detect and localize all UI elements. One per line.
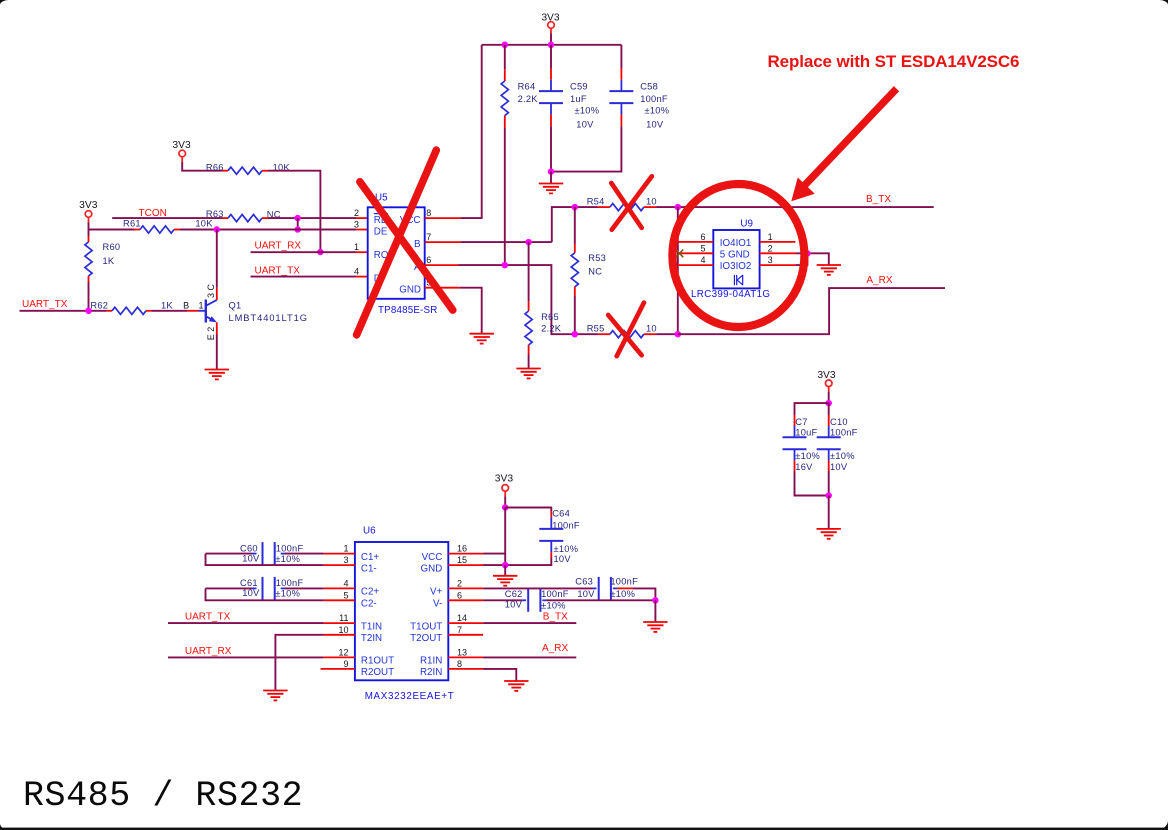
svg-text:R1OUT: R1OUT <box>361 656 394 667</box>
wire rail left drop to U5 pin8 <box>461 45 482 218</box>
resistor R55 10 <box>598 333 610 335</box>
svg-text:1uF: 1uF <box>570 94 587 104</box>
svg-text:V-: V- <box>433 599 442 610</box>
wire C10 to ground <box>828 496 830 529</box>
svg-text:4: 4 <box>354 267 359 277</box>
node junction pin15-C64-ground <box>502 562 509 569</box>
svg-text:B_TX: B_TX <box>543 611 568 622</box>
node junction A-R64 <box>502 262 509 269</box>
svg-text:UART_RX: UART_RX <box>255 240 302 251</box>
svg-text:V+: V+ <box>430 587 443 598</box>
node junction U9 pin2-pin3 <box>804 250 811 256</box>
wire UART_RX to U5 pin1 <box>251 251 357 253</box>
svg-text:1K: 1K <box>103 256 115 266</box>
svg-text:±10%: ±10% <box>275 589 300 599</box>
svg-text:IO3IO2: IO3IO2 <box>720 261 752 272</box>
svg-text:E 2: E 2 <box>206 327 216 341</box>
svg-text:7: 7 <box>426 232 431 242</box>
svg-text:±10%: ±10% <box>610 589 635 599</box>
svg-text:±10%: ±10% <box>645 105 670 115</box>
svg-text:16: 16 <box>457 544 467 554</box>
svg-text:16V: 16V <box>795 462 813 472</box>
svg-text:R65: R65 <box>541 312 559 322</box>
svg-text:T1IN: T1IN <box>361 621 382 632</box>
svg-text:B: B <box>414 239 421 250</box>
svg-text:5: 5 <box>343 590 348 600</box>
wire UART_TX to R62 <box>20 310 107 312</box>
svg-text:LMBT4401LT1G: LMBT4401LT1G <box>229 313 308 323</box>
node junction C7-C10 bottom <box>825 492 832 499</box>
svg-text:T2IN: T2IN <box>361 633 382 644</box>
svg-text:5: 5 <box>700 244 705 254</box>
svg-text:±10%: ±10% <box>275 554 300 564</box>
svg-text:C10: C10 <box>830 417 848 427</box>
wire Q1 collector up <box>216 230 218 288</box>
svg-text:1: 1 <box>343 544 348 554</box>
svg-text:8: 8 <box>426 208 431 218</box>
svg-text:Replace with ST ESDA14V2SC6: Replace with ST ESDA14V2SC6 <box>768 52 1020 71</box>
wire UART_TX to U5 pin4 <box>251 276 357 278</box>
capacitor C7 10uF <box>795 403 829 415</box>
wire U6 pin8 to ground <box>448 668 483 670</box>
diode glyph (U9) <box>733 275 735 285</box>
svg-text:4: 4 <box>343 578 348 588</box>
node junction R66-UART_RX <box>317 249 324 256</box>
wire U6 pin2 V+ to C63 <box>448 587 483 589</box>
svg-text:10: 10 <box>646 196 657 206</box>
resistor R60 1K <box>88 230 90 237</box>
svg-text:10V: 10V <box>576 119 594 129</box>
node junction RE-DE tie top <box>294 215 301 222</box>
wire 3V3 stem (C7/C10) <box>828 387 830 393</box>
svg-text:UART_RX: UART_RX <box>185 646 232 657</box>
node junction C59-C58 bottom <box>548 168 555 175</box>
op-amp U5 box <box>368 207 425 298</box>
wire U5 pin8 lead <box>425 217 461 219</box>
svg-text:2.2K: 2.2K <box>518 94 539 104</box>
node junction 3V3-C7 <box>825 400 832 407</box>
svg-text:Q1: Q1 <box>229 301 242 311</box>
svg-text:8: 8 <box>457 659 462 669</box>
resistor R54 10 <box>610 204 644 211</box>
svg-text:2: 2 <box>457 578 462 588</box>
node junction rail-R64 <box>502 42 509 49</box>
svg-text:2: 2 <box>768 244 773 254</box>
svg-text:11: 11 <box>339 613 348 623</box>
svg-text:±10%: ±10% <box>554 544 579 554</box>
red X over U5 <box>357 150 437 335</box>
red arrow to U9 <box>800 89 897 191</box>
wire C61 return (pin5) <box>206 588 324 600</box>
capacitor C59 1uF <box>550 45 552 68</box>
node junction V- C63 ground <box>652 597 659 604</box>
wire R61 left <box>89 229 135 231</box>
node junction R54-R53 <box>572 204 579 211</box>
svg-text:1K: 1K <box>161 300 173 310</box>
wire U5 pin7 (B) to R54 <box>425 241 461 243</box>
svg-text:5 GND: 5 GND <box>720 249 750 260</box>
wire R63 to U5 pin2 <box>268 217 356 219</box>
node junction B-R65 <box>525 239 532 246</box>
wire R62 to Q1 base <box>152 310 187 312</box>
svg-text:U9: U9 <box>740 219 753 230</box>
svg-text:10V: 10V <box>242 554 260 564</box>
svg-text:10V: 10V <box>646 119 664 129</box>
svg-text:C1+: C1+ <box>361 552 380 563</box>
ground (Q1 emitter) <box>205 370 229 380</box>
ground (U6 pin8) <box>504 681 528 691</box>
svg-text:R2IN: R2IN <box>420 667 442 678</box>
ground (U6 pin15) <box>493 576 517 586</box>
wire A_RX net <box>678 288 945 334</box>
wire C59 bottom to ground <box>550 172 552 184</box>
ground (R65) <box>516 369 540 379</box>
ground (U6 pin10) <box>263 691 287 701</box>
wire U9 pin1 lead <box>760 241 796 243</box>
node junction RE-DE tie bottom <box>294 226 301 233</box>
red X over R54 <box>611 183 641 228</box>
svg-text:C58: C58 <box>640 81 658 91</box>
window corner top-right <box>1159 0 1168 5</box>
wire 3V3 to R66 <box>181 157 183 162</box>
svg-text:10: 10 <box>646 323 657 333</box>
svg-text:10V: 10V <box>830 462 848 472</box>
wire C60 return (pin3) <box>206 554 324 566</box>
svg-text:3: 3 <box>768 255 773 265</box>
svg-text:B: B <box>183 300 189 310</box>
svg-text:A_RX: A_RX <box>542 643 568 654</box>
wire U9 pin6 lead <box>678 241 714 243</box>
svg-text:R66: R66 <box>206 162 224 172</box>
resistor R62 1K <box>106 310 112 312</box>
svg-text:7: 7 <box>457 625 462 635</box>
svg-text:10V: 10V <box>505 599 523 609</box>
wire U9 left bus <box>677 207 679 334</box>
ground (U5 pin5) <box>470 334 494 344</box>
svg-text:VCC: VCC <box>422 552 443 563</box>
svg-text:±10%: ±10% <box>575 105 600 115</box>
svg-text:3V3: 3V3 <box>172 140 191 151</box>
wire pin15 to ground <box>504 565 506 576</box>
svg-text:1: 1 <box>354 242 359 252</box>
svg-text:3: 3 <box>354 220 359 230</box>
resistor R63 10K (NC) <box>222 217 228 219</box>
window corner bottom-left <box>0 824 9 830</box>
node junction 3V3-C64 <box>502 504 509 511</box>
wire U6 pin15 GND <box>448 564 483 566</box>
svg-text:UART_TX: UART_TX <box>255 265 301 276</box>
ground (U9) <box>817 265 841 275</box>
wire R61 to U5 pin3 <box>180 229 356 231</box>
diode U9 box <box>713 230 759 288</box>
svg-text:10V: 10V <box>242 588 260 598</box>
svg-text:3: 3 <box>343 555 348 565</box>
wire V- junction to ground <box>654 600 656 622</box>
svg-text:2: 2 <box>354 208 359 218</box>
wire U6 pin14 T1OUT (B_TX) <box>448 622 483 624</box>
wire 3V3 stem to rail <box>550 28 552 33</box>
svg-text:12: 12 <box>338 647 348 657</box>
svg-text:LRC399-04AT1G: LRC399-04AT1G <box>691 289 770 300</box>
svg-text:B_TX: B_TX <box>866 194 891 205</box>
wire U9 pin2 to ground <box>760 252 796 254</box>
svg-text:±10%: ±10% <box>541 600 566 610</box>
capacitor C10 100nF <box>828 403 830 415</box>
wire U5 pin6 (A) to R55 <box>425 264 459 266</box>
wire UART_RX to U6 pin12 <box>168 656 324 658</box>
node junction rail-C59 <box>548 42 555 49</box>
node junction B_TX-U9 <box>675 204 682 211</box>
window corner top-left <box>0 0 9 5</box>
svg-text:R61: R61 <box>123 219 141 229</box>
svg-text:R63: R63 <box>206 209 224 219</box>
wire TCON to R63 <box>112 217 222 219</box>
svg-text:1: 1 <box>768 232 773 242</box>
wire U6 pin10 to ground <box>324 634 355 636</box>
ground (top rail) <box>539 184 563 194</box>
svg-text:C1-: C1- <box>361 564 377 575</box>
wire U5 pin5 to ground <box>425 287 460 289</box>
svg-text:R62: R62 <box>90 301 108 311</box>
svg-text:100nF: 100nF <box>830 427 858 437</box>
svg-text:C64: C64 <box>552 508 570 518</box>
svg-text:10V: 10V <box>554 554 572 564</box>
node junction R60-UART_TX <box>85 308 92 315</box>
wire RE-DE tie <box>297 218 299 229</box>
red circle around U9 <box>672 184 804 327</box>
svg-text:NC: NC <box>588 267 602 277</box>
svg-text:C60: C60 <box>240 543 258 553</box>
resistor R53 NC <box>574 207 576 243</box>
resistor R61 10K <box>134 229 140 231</box>
ground (C7/C10) <box>817 529 841 539</box>
svg-text:R54: R54 <box>587 196 605 206</box>
svg-text:3V3: 3V3 <box>817 370 836 381</box>
capacitor C60 100nF <box>206 553 253 555</box>
svg-text:GND: GND <box>421 564 443 575</box>
svg-text:RS485 / RS232: RS485 / RS232 <box>23 776 303 816</box>
svg-text:1: 1 <box>198 300 203 310</box>
ground (V-) <box>643 622 667 632</box>
svg-text:MAX3232EEAE+T: MAX3232EEAE+T <box>365 691 454 702</box>
svg-text:100nF: 100nF <box>610 576 638 586</box>
svg-text:R1IN: R1IN <box>420 656 442 667</box>
svg-text:C2-: C2- <box>361 599 377 610</box>
capacitor C61 100nF <box>206 587 253 589</box>
resistor R66 10K <box>222 170 228 172</box>
svg-text:100nF: 100nF <box>276 543 304 553</box>
svg-text:6: 6 <box>700 232 705 242</box>
svg-text:±10%: ±10% <box>795 451 820 461</box>
svg-text:R60: R60 <box>103 242 121 252</box>
svg-text:3V3: 3V3 <box>79 200 98 211</box>
svg-text:T2OUT: T2OUT <box>410 633 442 644</box>
wire Q1 emitter down <box>216 335 218 370</box>
svg-text:3 C: 3 C <box>206 283 216 298</box>
svg-text:C7: C7 <box>795 417 807 427</box>
svg-text:C2+: C2+ <box>361 587 380 598</box>
svg-text:C63: C63 <box>575 576 593 586</box>
wire U9 pin3 to junction <box>760 264 796 266</box>
svg-text:10V: 10V <box>577 589 595 599</box>
svg-text:6: 6 <box>457 590 462 600</box>
svg-text:2.2K: 2.2K <box>541 324 562 334</box>
red X over R55 <box>608 315 642 355</box>
capacitor C63 100nF <box>593 587 597 589</box>
wire 3V3 to R61 corner <box>88 217 90 222</box>
svg-text:GND: GND <box>399 284 421 295</box>
svg-text:10uF: 10uF <box>795 427 817 437</box>
op-amp U6 box <box>355 542 448 680</box>
transistor Q1 LMBT4401LT1G <box>205 300 207 323</box>
capacitor C64 100nF <box>505 508 551 512</box>
svg-text:3V3: 3V3 <box>495 474 514 485</box>
svg-text:100nF: 100nF <box>276 578 304 588</box>
svg-text:T1OUT: T1OUT <box>410 621 442 632</box>
node junction R55-R53 <box>572 331 579 338</box>
svg-text:10: 10 <box>338 625 348 635</box>
wire U9 pin5 lead (no connect) <box>678 252 713 254</box>
window corner bottom-right <box>1156 821 1168 830</box>
wire top 3V3 rail <box>482 44 622 46</box>
capacitor C62 100nF <box>522 599 526 601</box>
svg-text:A_RX: A_RX <box>866 275 892 286</box>
svg-text:IO4IO1: IO4IO1 <box>720 238 752 249</box>
node junction R61-Q1 collector <box>214 226 221 233</box>
svg-text:100nF: 100nF <box>541 589 569 599</box>
svg-text:C61: C61 <box>240 578 258 588</box>
svg-text:15: 15 <box>457 555 467 565</box>
svg-text:U6: U6 <box>363 526 376 537</box>
svg-text:100nF: 100nF <box>640 94 668 104</box>
wire U6 pin9 stub <box>321 668 355 670</box>
wire U6 pin16 VCC <box>448 553 483 555</box>
svg-text:9: 9 <box>343 659 348 669</box>
svg-text:13: 13 <box>457 647 467 657</box>
svg-text:R53: R53 <box>588 253 606 263</box>
svg-text:UART_TX: UART_TX <box>22 299 68 310</box>
wire U6 pin7 stub <box>448 634 483 636</box>
svg-text:C59: C59 <box>570 81 588 91</box>
svg-text:UART_TX: UART_TX <box>185 612 231 623</box>
svg-text:R2OUT: R2OUT <box>361 667 394 678</box>
svg-text:6: 6 <box>426 255 431 265</box>
resistor R64 2.2K <box>504 45 506 70</box>
no-connect X (U9 pin5) <box>676 250 683 258</box>
wire 3V3 stem (U6) <box>504 491 506 496</box>
node junction R55-U9 <box>675 331 682 338</box>
svg-text:±10%: ±10% <box>830 451 855 461</box>
wire B_TX net <box>678 206 934 208</box>
window bottom border <box>0 828 1168 830</box>
wire U9 pin4 lead <box>678 264 714 266</box>
svg-text:14: 14 <box>457 613 467 623</box>
wire UART_TX to U6 pin11 <box>168 622 324 624</box>
svg-text:10K: 10K <box>195 219 213 229</box>
svg-text:100nF: 100nF <box>552 520 580 530</box>
svg-text:R64: R64 <box>518 81 536 91</box>
capacitor C58 100nF <box>620 45 622 68</box>
svg-text:4: 4 <box>700 255 705 265</box>
wire U6 pin13 R1IN (A_RX) <box>448 656 483 658</box>
resistor R65 2.2K <box>528 242 530 301</box>
wire U6 pin6 V- to C62 <box>448 599 483 601</box>
svg-text:R55: R55 <box>587 323 605 333</box>
wire R66 to UART_RX <box>268 171 320 252</box>
svg-text:DE: DE <box>374 226 388 237</box>
svg-text:C62: C62 <box>505 589 523 599</box>
svg-text:TP8485E-SR: TP8485E-SR <box>378 305 437 316</box>
